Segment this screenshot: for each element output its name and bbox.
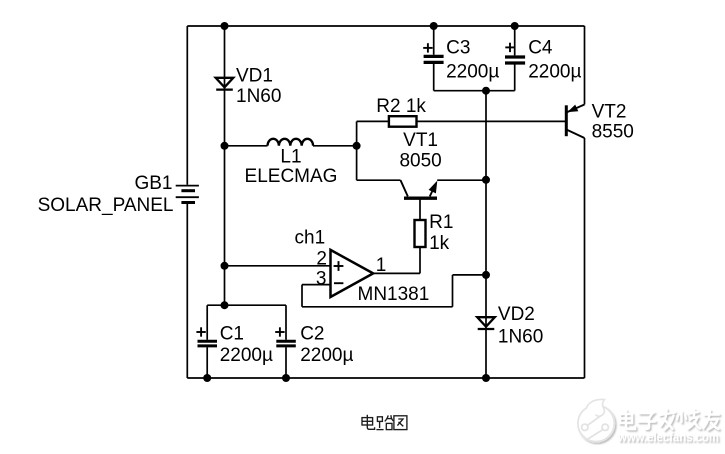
wire R2 to VT2 base <box>417 120 567 122</box>
wire C1 bottom lead <box>206 347 208 378</box>
wire C2 bottom lead <box>285 347 287 378</box>
wire right border bottom (VT2 emitter to bottom rail) <box>584 138 586 378</box>
wire L1 right lead <box>313 145 357 147</box>
watermark logo circle <box>578 399 614 441</box>
node junction C1C2 tap <box>221 301 229 309</box>
svg-text:C3: C3 <box>446 38 470 59</box>
svg-text:C2: C2 <box>300 324 324 345</box>
svg-text:C4: C4 <box>528 38 553 59</box>
resistor R2 1k <box>376 96 426 127</box>
svg-text:1N60: 1N60 <box>498 326 543 347</box>
wire C1 top lead <box>206 305 208 340</box>
wire VT1 collector lead <box>357 179 401 181</box>
wire VD1 branch vertical <box>224 26 226 305</box>
wm glyph dian <box>620 411 635 430</box>
node junction top rail / C4 <box>511 22 519 30</box>
wire VT1 emitter lead <box>437 179 486 181</box>
svg-text:VT2: VT2 <box>592 102 627 123</box>
resistor R1 1k <box>415 212 454 254</box>
node junction top rail / C3 <box>430 22 438 30</box>
svg-text:SOLAR_PANEL: SOLAR_PANEL <box>38 195 174 216</box>
op-amp U1 MN1381 <box>295 228 430 305</box>
capacitor C4 2200u <box>505 38 581 83</box>
node junction top rail / VD1 <box>221 22 229 30</box>
wire pin3 to VD2 node <box>453 274 487 276</box>
svg-text:VD2: VD2 <box>498 304 535 325</box>
svg-text:VT1: VT1 <box>403 130 438 151</box>
wire left border top <box>186 26 188 185</box>
wire top rail <box>187 25 584 27</box>
inductor L1 ELECMAG <box>245 139 338 187</box>
wm glyph shao <box>677 410 700 429</box>
transistor VT2 8550 <box>566 102 634 143</box>
svg-text:2: 2 <box>316 249 327 270</box>
wire C4 top lead <box>514 26 516 55</box>
wire op-amp pin2 input <box>225 265 331 267</box>
node junction VD2 bottom rail <box>482 374 490 382</box>
wire C4 bottom lead <box>514 64 516 91</box>
transistor VT1 8050 <box>399 130 441 198</box>
node junction L1 left <box>221 142 229 150</box>
svg-text:R1: R1 <box>429 212 453 233</box>
wire right border top (VT2 collector to top rail) <box>584 26 586 105</box>
svg-text:L1: L1 <box>280 147 301 168</box>
wire R2 left lead <box>357 120 389 122</box>
wire R1 bottom vertical <box>419 247 421 273</box>
wire op-amp output to R1 <box>373 272 420 274</box>
wire C3-C4 bottom joining <box>434 90 515 92</box>
op-amp plus marking <box>334 261 344 271</box>
node junction VD2 top <box>482 271 490 279</box>
battery GB1 SOLAR_PANEL <box>38 173 199 216</box>
node junction VT1 emitter <box>482 176 490 184</box>
wire left border bottom <box>186 204 188 378</box>
svg-text:1: 1 <box>376 255 387 276</box>
svg-text:2200µ: 2200µ <box>528 61 581 82</box>
wm glyph fa <box>660 410 675 430</box>
svg-text:8550: 8550 <box>592 122 634 143</box>
wire VD2 branch vertical <box>485 91 487 378</box>
wire C3 top lead <box>433 26 435 55</box>
capacitor C3 2200u <box>423 38 499 83</box>
wire C2 top lead <box>285 305 287 340</box>
svg-text:1k: 1k <box>429 233 450 254</box>
wm glyph zi <box>639 413 656 429</box>
node junction L1 right <box>353 142 361 150</box>
svg-text:2200µ: 2200µ <box>300 345 353 366</box>
wire R2 branch vertical <box>356 121 358 180</box>
svg-text:MN1381: MN1381 <box>358 284 430 305</box>
svg-text:VD1: VD1 <box>236 65 273 86</box>
wire C3 bottom lead <box>433 64 435 91</box>
wire bottom rail <box>187 377 584 379</box>
caption: drawn glyphs for Chinese caption (dian lu tu) <box>362 415 407 430</box>
node junction C2 bottom rail <box>282 374 290 382</box>
svg-text:ch1: ch1 <box>295 228 326 249</box>
op-amp minus marking <box>334 282 343 284</box>
svg-text:ELECMAG: ELECMAG <box>245 166 338 187</box>
wire pin3 return up <box>452 275 454 307</box>
watermark logo nodes <box>582 424 588 430</box>
svg-text:8050: 8050 <box>399 151 441 172</box>
caption glyph dian <box>362 415 375 430</box>
node junction pin2 tap <box>221 262 229 270</box>
svg-text:2200µ: 2200µ <box>446 61 499 82</box>
wire C1-C2 top joining <box>207 304 286 306</box>
svg-text:2200µ: 2200µ <box>220 345 273 366</box>
watermark Chinese text (dian zi fa shao you) approximated strokes <box>620 410 719 430</box>
svg-text:GB1: GB1 <box>134 173 172 194</box>
wire VT1 base to R1 <box>419 200 421 221</box>
wire L1 left lead <box>225 145 268 147</box>
svg-text:www.elecfans.com: www.elecfans.com <box>617 430 719 445</box>
capacitor C1 2200u <box>196 324 273 366</box>
wm glyph you <box>704 411 720 430</box>
svg-text:1N60: 1N60 <box>236 86 281 107</box>
diode VD1 1N60 <box>216 65 282 107</box>
svg-text:R2 1k: R2 1k <box>376 96 426 117</box>
wire pin3 return horizontal <box>302 306 453 308</box>
node junction C1 bottom rail <box>203 374 211 382</box>
svg-text:C1: C1 <box>220 324 244 345</box>
node junction C3C4 bottom <box>482 87 490 95</box>
capacitor C2 2200u <box>275 324 353 366</box>
svg-text:3: 3 <box>316 268 327 289</box>
caption glyph lu <box>376 415 393 429</box>
wire pin3 down <box>301 285 303 307</box>
caption glyph tu <box>394 416 407 430</box>
wire op-amp pin3 lead <box>302 284 331 286</box>
diode VD2 1N60 <box>477 304 543 347</box>
